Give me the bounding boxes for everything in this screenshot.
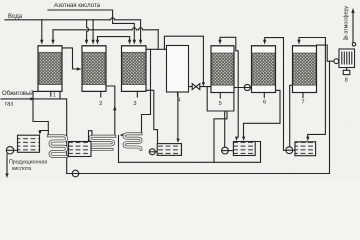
blower B1 — [244, 84, 250, 90]
pump P5 — [286, 147, 293, 154]
arrows into tower tops — [40, 40, 142, 45]
wire valve line tower4-tower5 — [189, 86, 212, 88]
tower T2 — [82, 46, 106, 97]
wire tower3 top to tower4 inlet — [146, 48, 167, 50]
wire header L4 — [98, 36, 130, 38]
tower T1 — [38, 46, 62, 97]
wire roast gas down to tank1/coil1 — [33, 99, 48, 136]
tower T7 — [293, 46, 317, 98]
tower T1 link to tower T2 — [62, 48, 80, 69]
wire tower2 downcomer to coilA — [106, 86, 115, 135]
pump P2 — [72, 170, 79, 177]
wire coilA to tank2 — [89, 131, 93, 142]
wire branch arrow into tank1 — [40, 131, 49, 132]
wire gap drop to pump4 — [207, 87, 234, 111]
wire roast gas line — [1, 99, 67, 174]
pump P4 — [222, 147, 229, 154]
wire header L3 — [53, 28, 158, 30]
wire L3 extension to tower4 — [157, 30, 159, 50]
wire line B — [67, 173, 330, 175]
wire acid header L1 — [48, 10, 113, 23]
wire tower6 bottom gas out — [244, 90, 281, 137]
wire blower line tower5-tower6 — [234, 87, 252, 89]
wire unit8 riser to bottom line — [329, 61, 331, 173]
tower T5 — [211, 46, 234, 98]
valve V1 bowtie — [192, 84, 200, 90]
wire tower4 bottom to tank3 — [177, 92, 179, 140]
wire tower7 bottom to pump5 — [290, 85, 295, 147]
tower T6 — [252, 46, 276, 98]
tower T4 empty — [167, 46, 189, 93]
vent circle U8 top — [352, 43, 355, 46]
tank K2 — [69, 142, 92, 157]
wire water drop to tower1 — [41, 20, 43, 40]
wire tower1 bottom outlet — [59, 91, 61, 99]
tower T3 — [122, 46, 147, 97]
unit U8 venturi scrubber — [339, 49, 355, 75]
tank K3 — [157, 144, 181, 156]
tank K1 — [18, 135, 40, 152]
tower T7 spray bracket — [299, 38, 325, 139]
valve V8 inlet circle — [334, 59, 339, 64]
wire L3 left drop arrow into tower1 — [52, 30, 54, 40]
coil C3 — [124, 134, 141, 149]
stack arrow to atmosphere — [352, 11, 354, 46]
wire tower3 gas line drop — [142, 49, 151, 134]
tank K5 — [233, 142, 255, 156]
coil C1 — [48, 136, 66, 157]
wire tower7 top to unit8 — [317, 45, 334, 61]
wire line A — [119, 142, 261, 163]
tank K7 — [295, 142, 316, 156]
wire overline tower4 to gap — [164, 36, 203, 84]
wire header L2b — [113, 23, 135, 39]
tower T5 spray bracket — [220, 37, 238, 137]
wire product acid arrow — [6, 154, 8, 175]
pump P1 — [6, 147, 13, 154]
wire coilB left leg to line A — [118, 136, 120, 163]
wire water header L2 — [5, 18, 141, 40]
wire roast gas up into tower1 — [33, 91, 38, 99]
tower T6 spray bracket — [265, 38, 286, 151]
wire water drops to tower2 — [87, 20, 89, 40]
coil C2 — [90, 136, 115, 149]
pump P3 — [149, 149, 155, 155]
wire tower3 bottom to tank3 steps — [146, 90, 158, 143]
wire tower5 right edge drop — [233, 93, 235, 112]
